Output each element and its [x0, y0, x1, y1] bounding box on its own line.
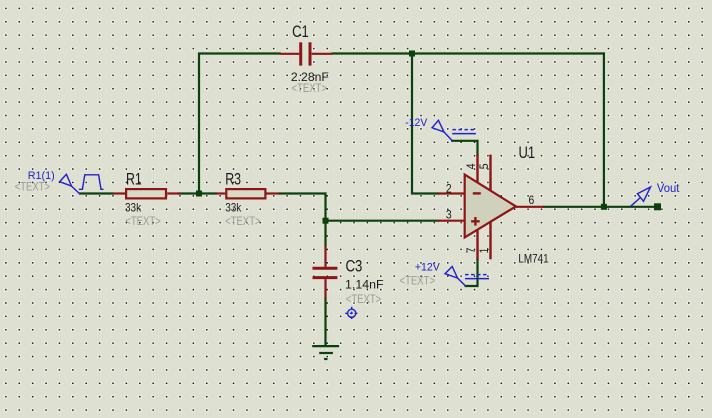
wire node down to C3: [324, 221, 326, 247]
svg-text:<TEXT>: <TEXT>: [15, 179, 50, 193]
svg-text:33k: 33k: [125, 200, 142, 214]
op-amp U1: [438, 143, 549, 266]
wire output: [544, 206, 658, 208]
svg-text:1: 1: [477, 247, 491, 253]
wire C3 to ground: [324, 298, 326, 345]
wire junction up to top feedback rail: [199, 54, 280, 194]
power terminal -12V: [432, 120, 476, 140]
junction node top rail / pin2 branch: [409, 51, 415, 57]
capacitor C3: [313, 246, 384, 305]
svg-text:R3: R3: [225, 170, 241, 189]
svg-text:+12V: +12V: [415, 262, 441, 274]
svg-text:<TEXT>: <TEXT>: [400, 273, 435, 287]
svg-text:33k: 33k: [225, 200, 242, 214]
resistor R1: [113, 170, 180, 228]
svg-text:<TEXT>: <TEXT>: [346, 292, 381, 306]
svg-text:R1: R1: [126, 170, 142, 189]
svg-text:5: 5: [477, 163, 491, 169]
wire feedback down to output: [603, 54, 605, 207]
resistor R3: [216, 170, 279, 228]
junction node output/feedback: [601, 204, 607, 210]
power terminal +12V: [445, 267, 489, 287]
wire pin7 to +12V terminal: [466, 259, 478, 286]
svg-text:LM741: LM741: [518, 251, 548, 265]
svg-text:3: 3: [446, 207, 452, 221]
capacitor C1: [280, 22, 333, 95]
ground: [312, 346, 339, 359]
svg-text:-12V: -12V: [405, 117, 428, 129]
junction node R3/C3/pin3: [323, 218, 329, 224]
wire input to R1: [80, 192, 113, 194]
wire -12V terminal to pin4: [452, 141, 477, 155]
svg-text:6: 6: [529, 193, 535, 207]
junction node R1/R3/feedback: [196, 191, 202, 197]
svg-text:C1: C1: [292, 22, 309, 41]
wire R3 right, down to node, right to pin3: [279, 194, 438, 221]
wire R1 to R3 (through junction): [178, 192, 216, 194]
svg-text:<TEXT>: <TEXT>: [125, 214, 160, 228]
origin marker: [345, 307, 358, 320]
svg-text:1.14nF: 1.14nF: [345, 278, 384, 292]
svg-text:C3: C3: [346, 257, 363, 276]
svg-text:2: 2: [446, 182, 452, 196]
svg-text:4: 4: [464, 163, 478, 169]
wire top rail down to pin2: [412, 54, 438, 194]
wire C1 right to feedback corner: [333, 52, 604, 54]
input terminal / generator R1(1): [60, 174, 104, 194]
svg-text:7: 7: [464, 247, 478, 253]
svg-text:<TEXT>: <TEXT>: [225, 214, 260, 228]
output terminal square: [654, 203, 661, 210]
svg-text:Vout: Vout: [657, 181, 680, 195]
output terminal Vout arrow: [630, 187, 650, 207]
svg-text:U1: U1: [519, 143, 536, 162]
svg-text:<TEXT>: <TEXT>: [292, 81, 327, 95]
